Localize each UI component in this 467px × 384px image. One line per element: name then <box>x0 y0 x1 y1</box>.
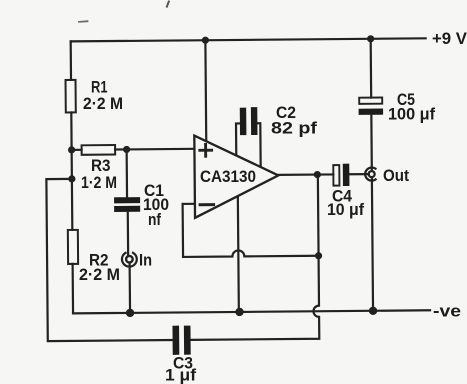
svg-text:In: In <box>139 251 152 270</box>
wire C2 right lead <box>257 123 260 166</box>
connector In outer ring <box>122 253 137 267</box>
wire Out bottom lead <box>372 177 373 310</box>
node loop branch junction <box>68 175 75 182</box>
wire output drop with rail hop to C3 <box>190 175 319 340</box>
wire R2 bottom lead <box>72 264 75 313</box>
connector In inner ring <box>126 256 133 263</box>
wire R1 top lead <box>70 41 73 79</box>
wire op-amp output <box>278 173 333 176</box>
node C5-line/rail junction <box>369 307 377 315</box>
svg-text:nf: nf <box>148 210 161 229</box>
wire outer loop left <box>46 178 172 341</box>
wire C5 bottom lead <box>370 115 373 171</box>
wire -ve bottom rail <box>73 310 430 313</box>
wire C1 bottom lead <box>127 212 130 256</box>
wire feedback bottom with hop <box>183 250 319 257</box>
wire to R2 <box>71 179 74 230</box>
resistor R1 <box>66 80 76 113</box>
svg-text:1 μf: 1 μf <box>165 366 196 384</box>
svg-text:-ve: -ve <box>433 302 461 321</box>
capacitor C4 negative plate <box>343 164 350 186</box>
node R1/R3 junction <box>68 146 75 153</box>
wire V+ pin lead <box>204 40 207 141</box>
op-amp + input symbol <box>200 144 212 156</box>
wire C4 to Out <box>349 173 368 175</box>
node pin4/rail junction <box>235 308 243 316</box>
capacitor C4 positive plate <box>333 165 339 186</box>
op-amp - input symbol <box>200 203 213 206</box>
node top rail / V+ junction <box>202 37 209 44</box>
wire In bottom lead <box>129 263 132 313</box>
node output junction <box>314 171 321 178</box>
wire pin4 lead <box>238 197 239 312</box>
wire R1 bottom lead <box>70 112 73 149</box>
capacitor C5 positive plate <box>359 97 382 103</box>
connector Out outer ring <box>365 167 376 180</box>
capacitor C2 <box>243 110 254 132</box>
wire +9V top rail <box>71 38 426 41</box>
resistor R2 <box>68 230 78 264</box>
op-amp U1 CA3130 triangle <box>194 135 278 218</box>
capacitor C1 <box>117 200 137 209</box>
wire left line to loop node <box>71 150 73 179</box>
svg-text:82 pf: 82 pf <box>271 119 317 138</box>
wire C5 top lead <box>370 39 373 98</box>
wire C1 top lead <box>126 149 129 196</box>
svg-text:CA3130: CA3130 <box>200 167 256 186</box>
node top rail / C5 junction <box>367 35 374 42</box>
wire - input lead <box>183 203 195 205</box>
connector Out inner ring <box>369 171 375 177</box>
svg-text:100 μf: 100 μf <box>388 105 435 124</box>
wire R3 right lead <box>115 148 126 150</box>
svg-text:1·2 M: 1·2 M <box>81 173 117 192</box>
capacitor C3 <box>176 329 188 352</box>
wire R3 left lead <box>72 149 82 151</box>
svg-text:2·2 M: 2·2 M <box>83 94 123 113</box>
wire to op-amp + input <box>127 148 194 151</box>
wire C2 left lead <box>236 123 240 155</box>
svg-text:10 μf: 10 μf <box>327 200 364 219</box>
resistor R3 <box>82 145 116 155</box>
wire feedback left vertical <box>182 204 185 257</box>
node R3/C1/+input junction <box>123 146 130 153</box>
svg-text:2·2 M: 2·2 M <box>79 265 120 284</box>
capacitor C5 negative plate <box>359 108 384 114</box>
node feedback/output-line junction <box>315 252 322 259</box>
svg-text:Out: Out <box>383 166 409 185</box>
svg-text:+9 V: +9 V <box>432 29 467 48</box>
node In-line/rail junction <box>126 309 134 317</box>
